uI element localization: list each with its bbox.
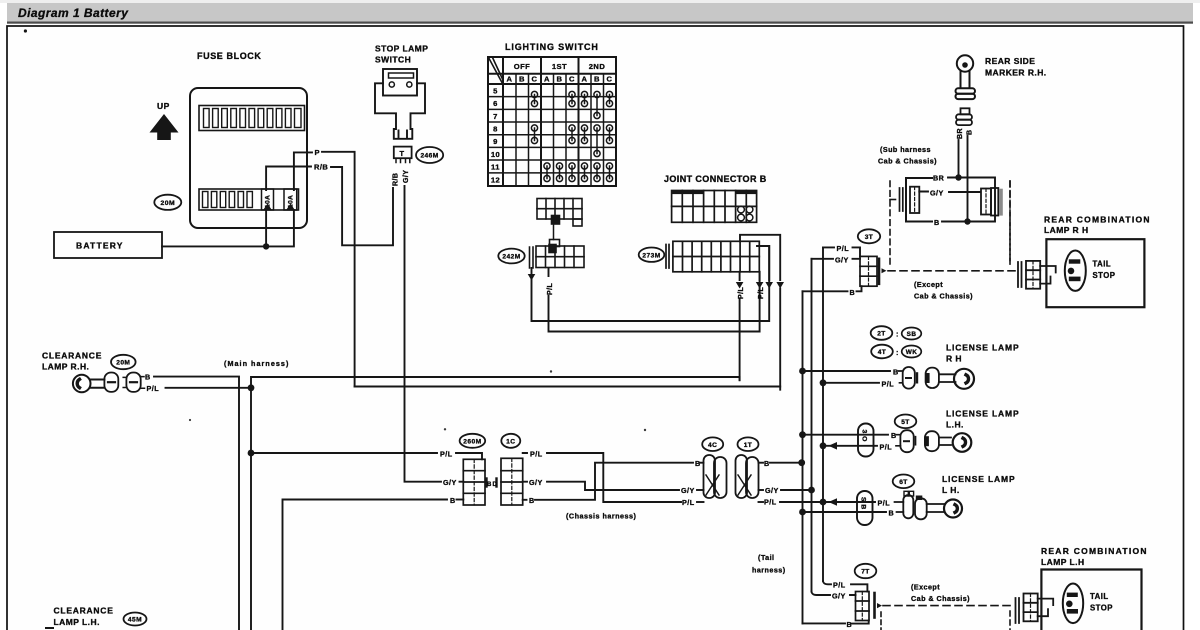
connector oval 45M (124, 613, 147, 626)
svg-text:P: P (315, 148, 320, 157)
arrow left P/L license LH mid (829, 442, 838, 450)
switch contacts rows 8-9 (531, 125, 612, 157)
wire P/L license LH bottom (823, 501, 875, 503)
rear combination lamp LH connector (1016, 594, 1054, 624)
junction B bus (798, 459, 805, 466)
svg-text:260M: 260M (463, 439, 481, 446)
dashed wire into lamp RH (1009, 181, 1011, 265)
svg-text:STOP LAMP: STOP LAMP (375, 44, 428, 54)
wire G/Y 3T stub (812, 258, 861, 260)
wire P/L main harness long (251, 377, 740, 388)
wire G/Y 1C right jog (523, 482, 679, 490)
svg-text:273M: 273M (642, 252, 660, 259)
connector 4C body (704, 455, 727, 498)
clearance lamp RH connector pills (104, 373, 144, 392)
svg-text:BATTERY: BATTERY (76, 241, 124, 251)
battery B1 (54, 232, 162, 258)
speck dots small (444, 428, 446, 430)
svg-text:CLEARANCE: CLEARANCE (42, 351, 102, 361)
wire P/L license RH (823, 382, 879, 384)
connector oval 5T (895, 415, 917, 429)
connector oval 1C (501, 434, 520, 448)
fuse 10A (R/B) (262, 189, 274, 210)
svg-text::: : (896, 350, 899, 357)
svg-text:B: B (594, 75, 600, 84)
svg-text:C: C (532, 75, 538, 84)
license lamp LH bottom bulb (944, 500, 962, 518)
svg-text:T: T (400, 149, 405, 158)
svg-text:LICENSE LAMP: LICENSE LAMP (942, 474, 1015, 484)
wire B into 4C (700, 462, 704, 464)
svg-text:C: C (607, 75, 613, 84)
arrow down wire 4 (776, 282, 784, 289)
connector oval 3T (858, 229, 880, 243)
connector oval 20M (154, 195, 181, 210)
arrow down wire 1 (736, 282, 744, 289)
license lamp LH mid connector chain (896, 430, 951, 452)
svg-text:REAR COMBINATION: REAR COMBINATION (1044, 215, 1151, 225)
svg-text:P/L: P/L (764, 498, 777, 507)
svg-text:R/B: R/B (314, 163, 328, 172)
svg-text:G/Y: G/Y (443, 478, 457, 487)
svg-text:9: 9 (493, 137, 498, 146)
svg-text:(Chassis harness): (Chassis harness) (566, 512, 637, 521)
svg-text:B: B (934, 218, 940, 227)
wire G/Y out of 1T (759, 489, 764, 491)
wire P/L 1C right jog (523, 453, 681, 502)
lighting switch table S1 (488, 57, 616, 186)
switch contacts rows 5-6 (531, 91, 612, 118)
svg-text:BR: BR (933, 174, 945, 183)
svg-text:(Main harness): (Main harness) (224, 359, 289, 368)
svg-text:11: 11 (491, 163, 500, 172)
rear combination lamp RH connector (1018, 261, 1056, 289)
svg-text:harness): harness) (752, 566, 786, 575)
connector 3T body (860, 256, 887, 286)
sub harness left bracket (906, 178, 932, 222)
svg-text:1T: 1T (744, 442, 753, 449)
svg-text:SWITCH: SWITCH (375, 55, 411, 65)
connector oval 242M (498, 249, 524, 264)
wire P long to joint connector (355, 386, 781, 388)
svg-text:8: 8 (493, 125, 498, 134)
svg-text:B: B (850, 288, 856, 297)
svg-text:7: 7 (493, 112, 498, 121)
wire bus G/Y to 7T (812, 592, 856, 596)
clearance lamp RH bulb (73, 375, 105, 393)
svg-text:B: B (847, 620, 853, 629)
svg-text:(Except: (Except (914, 280, 943, 289)
svg-text:B: B (891, 431, 897, 440)
junction P/L bus license LH mid (820, 442, 827, 449)
bus wire B vertical (802, 291, 804, 623)
svg-text:6T: 6T (899, 479, 908, 486)
junction P/L at main drop (248, 450, 255, 457)
svg-text:LAMP R H: LAMP R H (1044, 225, 1089, 235)
UP arrow (150, 114, 179, 140)
svg-text:B: B (519, 75, 525, 84)
wire P/L left to 260M (251, 452, 437, 454)
svg-text:G/Y: G/Y (403, 170, 410, 183)
wire P/L drop to bottom (250, 388, 252, 630)
sub harness dashed box (890, 181, 1010, 266)
svg-text:A: A (507, 75, 513, 84)
svg-text:C: C (569, 75, 575, 84)
bus wire P/L vertical (822, 247, 824, 581)
svg-text:P/L: P/L (682, 498, 695, 507)
dashed wire except cab chassis bottom (883, 605, 1014, 607)
wire joint connector drop 4 to long P line (740, 235, 780, 390)
svg-text:G/Y: G/Y (930, 189, 944, 198)
junction battery/fuse (263, 243, 269, 249)
svg-text:L H.: L H. (942, 485, 960, 495)
svg-text:3T: 3T (865, 234, 874, 241)
svg-text:(Except: (Except (911, 583, 940, 592)
wire fuse R/B out (266, 167, 311, 191)
wire G/Y switch drop (405, 186, 442, 482)
svg-text:JOINT CONNECTOR B: JOINT CONNECTOR B (664, 174, 767, 184)
wire joint connector drop 1 (P/L) (739, 272, 741, 380)
bus wire G/Y vertical (811, 259, 813, 592)
svg-text:5T: 5T (901, 419, 910, 426)
svg-text:LIGHTING SWITCH: LIGHTING SWITCH (505, 42, 599, 52)
connector oval 4T (871, 345, 893, 359)
svg-text:LICENSE LAMP: LICENSE LAMP (946, 343, 1019, 353)
junction P/L bus (820, 499, 827, 506)
svg-text:45M: 45M (128, 617, 142, 624)
wire P/L into 260M (456, 453, 482, 459)
wire fuse R/B drop (265, 210, 267, 246)
svg-text:A: A (582, 75, 588, 84)
svg-text:Diagram 1 Battery: Diagram 1 Battery (18, 6, 129, 20)
svg-text:P/L: P/L (547, 282, 554, 295)
svg-text:5: 5 (493, 87, 498, 96)
arrow down on 242M left wire (528, 274, 536, 281)
svg-text:CLEARANCE: CLEARANCE (54, 606, 114, 616)
wire BR sub harness (942, 178, 995, 222)
wire B 3T stub (803, 286, 862, 291)
wire G/Y sub harness (919, 191, 980, 194)
joint connector B upper grid (672, 191, 757, 223)
svg-text:OFF: OFF (514, 62, 531, 71)
junction P/L bus license RH (820, 379, 827, 386)
svg-text:P/L: P/L (738, 286, 745, 299)
rear combination lamp LH bulb (1063, 584, 1083, 624)
wire B license LH bottom (803, 511, 887, 513)
svg-text:L.H.: L.H. (946, 420, 964, 430)
svg-text:2ND: 2ND (589, 62, 606, 71)
svg-text:B: B (967, 129, 974, 135)
speck dot top left (24, 29, 27, 32)
svg-text:P/L: P/L (758, 286, 765, 299)
arrow down wire 3 (765, 282, 773, 289)
svg-text:UP: UP (157, 101, 170, 111)
svg-text:Cab & Chassis): Cab & Chassis) (878, 157, 937, 166)
svg-text:6: 6 (493, 99, 498, 108)
svg-text:STOP: STOP (1090, 604, 1113, 613)
svg-text:20M: 20M (161, 200, 176, 207)
svg-text:A: A (544, 75, 550, 84)
wire B into 260M (457, 499, 464, 501)
connector 7T body (856, 592, 883, 621)
svg-text:P/L: P/L (530, 450, 543, 459)
connector oval 7T (855, 564, 877, 578)
junction P/L main (248, 384, 255, 391)
svg-text:P/L: P/L (880, 442, 893, 451)
wire clearance B to LH drop (154, 377, 239, 630)
connector oval 2T (871, 326, 893, 340)
sub connector left (900, 187, 920, 213)
svg-text:12: 12 (491, 175, 500, 184)
rear combination lamp LH box (1041, 570, 1141, 630)
connector oval 6T (893, 475, 915, 489)
wire B left riser to 260M (283, 500, 448, 630)
wire bus B to 7T (803, 621, 869, 624)
svg-text:D: D (493, 482, 498, 488)
wire B out of 1T (759, 462, 764, 464)
svg-text:Cab & Chassis): Cab & Chassis) (911, 594, 970, 603)
svg-text:BR: BR (957, 128, 964, 139)
dashed stub below 7T tab (880, 612, 882, 630)
wire 242M right drop to joint connector (549, 268, 760, 332)
dashed wire except cab chassis top (888, 270, 1016, 272)
svg-text:B: B (764, 459, 770, 468)
inline connector pill 3O (858, 424, 874, 457)
svg-text:G/Y: G/Y (681, 486, 695, 495)
license lamp RH connector chain (899, 367, 956, 389)
svg-text:B: B (529, 496, 535, 505)
wire P/L 3T stub (823, 247, 860, 256)
junction B sub (964, 218, 970, 224)
svg-text:LAMP L.H: LAMP L.H (1041, 557, 1085, 567)
joint connector B lower grid (666, 241, 759, 271)
tick bottom left (46, 627, 53, 629)
svg-text:TAIL: TAIL (1093, 260, 1112, 269)
fuse 10A (P) (284, 189, 297, 210)
svg-text:R/B: R/B (393, 173, 400, 186)
connector oval 246M (416, 147, 443, 163)
switch contacts rows 11-12 (544, 163, 613, 182)
connector 1T body (736, 455, 759, 498)
svg-text:STOP: STOP (1093, 271, 1116, 280)
svg-text:10: 10 (491, 150, 500, 159)
svg-text:MARKER R.H.: MARKER R.H. (985, 68, 1047, 78)
connector oval SB dashed (902, 328, 922, 340)
stop lamp connector T (394, 147, 412, 159)
svg-text:246M: 246M (420, 153, 438, 160)
fuse row top (199, 106, 305, 131)
svg-text:SB: SB (907, 331, 917, 338)
wire battery to fuses (162, 210, 294, 246)
dashed stub into lamp LH (1009, 611, 1011, 630)
svg-text:B: B (145, 373, 151, 382)
wire BR marker drop (958, 140, 960, 177)
svg-text:LAMP L.H.: LAMP L.H. (54, 617, 100, 627)
wire G/Y 1T to bus (781, 489, 812, 491)
wire B 1C right jog (523, 463, 693, 500)
sub connector right (981, 188, 1003, 216)
svg-text:7T: 7T (861, 569, 870, 576)
arrow left P/L license LH bottom (829, 498, 838, 506)
svg-text:4T: 4T (878, 349, 887, 356)
wire bus P/L to 7T (823, 581, 867, 592)
connector oval 1T (738, 437, 759, 451)
fuse block body (190, 88, 307, 228)
svg-text:1C: 1C (506, 439, 515, 446)
svg-text:3 O: 3 O (860, 430, 867, 442)
svg-text:Cab & Chassis): Cab & Chassis) (914, 292, 973, 301)
svg-text:G/Y: G/Y (832, 591, 846, 600)
svg-text:4C: 4C (708, 442, 717, 449)
rear side marker connector pair (956, 108, 972, 125)
svg-text:(Tail: (Tail (758, 553, 775, 562)
svg-text:242M: 242M (502, 254, 520, 261)
svg-text:B: B (450, 496, 456, 505)
svg-text::: : (896, 332, 899, 339)
rear combination lamp RH bulb (1065, 251, 1086, 291)
connector oval 4C (702, 437, 723, 451)
wire joint connector drop 2 (P/L) (759, 272, 761, 280)
wire joint connector drop 3 (768, 246, 770, 280)
svg-text:REAR COMBINATION: REAR COMBINATION (1041, 546, 1148, 556)
connector oval 260M (460, 434, 486, 448)
license lamp RH bulb (954, 369, 974, 389)
fuse row bottom (199, 189, 299, 210)
junction G/Y bus (808, 487, 815, 494)
lighting switch connector (537, 199, 582, 240)
rear combination lamp RH box (1046, 239, 1144, 307)
wire B marker drop (967, 136, 969, 222)
svg-text:B: B (889, 509, 895, 518)
svg-text:B: B (487, 482, 492, 488)
svg-text:REAR SIDE: REAR SIDE (985, 56, 1035, 66)
wire B 1T to bus (770, 462, 802, 464)
svg-text:G/Y: G/Y (529, 478, 543, 487)
svg-text:(Sub harness: (Sub harness (880, 145, 931, 154)
junction B bus license LH bottom (799, 509, 806, 516)
wire R/B to stop lamp switch (331, 167, 393, 245)
svg-text:R H: R H (946, 354, 962, 364)
svg-text:S B: S B (859, 497, 866, 510)
arrow down wire 2 (756, 282, 764, 289)
wire clearance P/L (166, 387, 252, 389)
connector oval 20M clearance (111, 355, 136, 369)
svg-text:P/L: P/L (147, 384, 160, 393)
svg-text:P/L: P/L (440, 450, 453, 459)
svg-text:G/Y: G/Y (835, 255, 849, 264)
connector 260M grid (463, 459, 486, 505)
inline connector pill SB (857, 491, 873, 525)
stop lamp switch SW1 (375, 69, 425, 139)
wire fuse P out (294, 152, 312, 190)
svg-text:G/Y: G/Y (765, 486, 779, 495)
svg-text:20M: 20M (116, 360, 130, 367)
svg-text:P/L: P/L (882, 379, 895, 388)
wire P/L out of 1T (759, 501, 764, 503)
svg-text:TAIL: TAIL (1090, 592, 1109, 601)
wire B license RH (803, 370, 891, 372)
junction B bus license RH (799, 368, 806, 375)
junction B bus license LH mid (799, 431, 806, 438)
svg-text:P/L: P/L (833, 581, 846, 590)
connector oval WK dashed (902, 346, 922, 358)
svg-text:LICENSE LAMP: LICENSE LAMP (946, 409, 1019, 419)
wire 242M left drop to joint connector (532, 246, 770, 321)
connector oval 273M (639, 248, 665, 262)
license lamp LH mid bulb (953, 433, 972, 452)
wire G/Y into 260M (460, 481, 464, 483)
wire P/L license LH mid (823, 445, 877, 447)
wire P/L into 4C (697, 501, 704, 503)
wire P/L 1T to bus (780, 501, 823, 503)
wire G/Y into 4C (697, 489, 704, 491)
svg-text:B: B (893, 368, 899, 377)
svg-text:2T: 2T (877, 331, 886, 338)
svg-text:1ST: 1ST (552, 62, 567, 71)
svg-text:WK: WK (906, 349, 918, 356)
svg-text:P/L: P/L (837, 244, 850, 253)
svg-text:P/L: P/L (878, 499, 891, 508)
wire B license LH mid (803, 434, 889, 436)
svg-text:B: B (557, 75, 563, 84)
rear side marker bulb (956, 55, 976, 99)
svg-text:LAMP R.H.: LAMP R.H. (42, 362, 89, 372)
connector 242M (530, 240, 585, 269)
license lamp LH bottom connector chain (895, 491, 945, 519)
header bar (0, 0, 1200, 3)
junction BR (955, 174, 961, 180)
svg-text:FUSE BLOCK: FUSE BLOCK (197, 51, 262, 61)
connector 1C grid (497, 458, 523, 505)
wire P down long (322, 152, 355, 387)
